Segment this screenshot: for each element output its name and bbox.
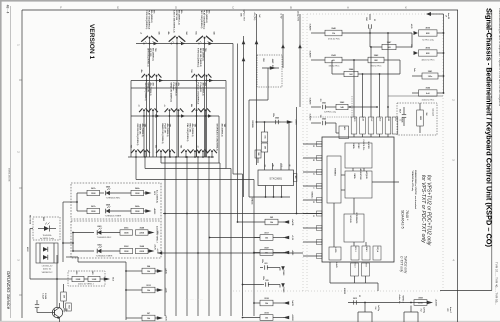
svg-text:29301-102.01: 29301-102.01 <box>8 168 10 182</box>
svg-text:100n: 100n <box>262 276 264 280</box>
key caption row 2 x201 <box>196 48 207 68</box>
svg-text:TLHR4605 REC: TLHR4605 REC <box>106 198 121 200</box>
svg-text:PLAY 187: PLAY 187 <box>164 124 167 134</box>
key switch S41 with diode <box>130 145 141 153</box>
svg-text:SICL 2: SICL 2 <box>354 246 356 251</box>
svg-text:+5: +5 <box>163 104 165 106</box>
svg-text:7u1: 7u1 <box>374 306 376 309</box>
opto box LXG351-JO <box>36 243 58 274</box>
svg-text:48h (VERS.2): 48h (VERS.2) <box>221 124 224 137</box>
wire key column S12 <box>176 38 178 157</box>
key switch S43 with diode <box>155 145 166 153</box>
svg-text:UHR 185 (VERS.1): UHR 185 (VERS.1) <box>146 48 148 67</box>
svg-text:1.88/: 1.88/ <box>387 117 389 121</box>
wire right column link <box>443 14 445 93</box>
svg-text:A: A <box>347 5 349 9</box>
resistor R96E <box>255 150 261 163</box>
key switch S23 with diode <box>190 69 201 77</box>
svg-text:SC-BUS: SC-BUS <box>349 215 351 223</box>
connector shell J2 <box>404 306 424 322</box>
svg-text:SLS 181 (VERS.2): SLS 181 (VERS.2) <box>144 83 146 101</box>
svg-text:150E: 150E <box>91 211 96 213</box>
wire key column S48 <box>211 151 213 157</box>
svg-text:+B2/26: +B2/26 <box>291 314 293 321</box>
scan edge top <box>0 0 500 2</box>
svg-text:DATA: DATA <box>352 144 355 150</box>
svg-text:VERSION 2: VERSION 2 <box>42 272 54 274</box>
svg-text:220E: 220E <box>139 251 144 253</box>
matrix row wire 4 <box>128 156 214 158</box>
vertical wire bus <box>164 156 210 316</box>
svg-text:REC 185: REC 185 <box>189 124 191 133</box>
svg-text:SDA 3: SDA 3 <box>365 247 368 252</box>
svg-text:VERSION 1: VERSION 1 <box>88 24 95 60</box>
svg-text:EJECT 184 (VERS.1,2): EJECT 184 (VERS.1,2) <box>172 10 175 33</box>
svg-text:348b: 348b <box>135 205 140 208</box>
arrow feed 4090 for PDC only <box>410 24 444 42</box>
svg-text:150E: 150E <box>124 251 129 253</box>
svg-text:882 for PDC: 882 for PDC <box>370 66 382 68</box>
resistor R3947 small <box>370 33 412 50</box>
ic block bus interface <box>344 213 364 242</box>
ic block sicl <box>351 246 359 260</box>
svg-text:4-in-2 3B/2A 4u: 4-in-2 3B/2A 4u <box>156 190 159 203</box>
svg-text:* SDA4040 for VPS only: * SDA4040 for VPS only <box>411 170 414 192</box>
resistor R3944 <box>332 60 400 77</box>
svg-text:delete for: delete for <box>43 268 52 271</box>
svg-text:SDA4642/6846 for VPS/PDC, new: SDA4642/6846 for VPS/PDC, new download <box>414 170 417 210</box>
svg-text:48u: 48u <box>155 145 158 148</box>
svg-text:63: 63 <box>358 295 360 297</box>
svg-text:CIRQ A: CIRQ A <box>376 246 379 253</box>
key switch S31 with diode <box>138 104 149 112</box>
resistor R3963 <box>78 276 113 285</box>
svg-text:265: 265 <box>265 280 268 282</box>
svg-text:48h (VERS.1): 48h (VERS.1) <box>150 10 153 23</box>
svg-text:48h (VERS.2): 48h (VERS.2) <box>191 124 194 137</box>
transistor T4F00 <box>52 303 67 322</box>
resistor R3908 220E <box>414 298 438 308</box>
key switch S12 with diode <box>167 31 188 44</box>
svg-text:(delay TU²): (delay TU²) <box>297 11 300 21</box>
svg-text:delete for PDC: delete for PDC <box>422 98 435 101</box>
svg-text:delete for PDC: delete for PDC <box>421 58 435 61</box>
key caption row 1 x177 <box>172 10 183 33</box>
led D6868 TLHR4605 TIMER <box>105 205 131 218</box>
title separator rule <box>491 10 493 291</box>
svg-text:P-Down: P-Down <box>172 83 174 92</box>
key caption row 4 x165 <box>161 124 172 144</box>
svg-text:SuR/290: SuR/290 <box>309 51 311 58</box>
svg-text:S7XC0681: S7XC0681 <box>269 177 282 181</box>
ic bottom pin boxes <box>330 262 378 291</box>
dashed box LED indicators version 1 <box>71 183 161 219</box>
svg-text:150E: 150E <box>135 211 140 213</box>
resistor R364 row <box>126 265 168 275</box>
svg-text:byPass TXT: byPass TXT <box>243 9 245 21</box>
svg-text:D: D <box>175 5 177 9</box>
svg-text:63: 63 <box>373 19 375 21</box>
svg-text:SLICER: SLICER <box>367 142 369 150</box>
svg-text:GND/4u: GND/4u <box>311 192 314 200</box>
ic block data slicer <box>345 140 372 168</box>
capacitor C265 row d <box>262 276 285 293</box>
svg-text:SC6: SC6 <box>410 44 412 48</box>
svg-text:SuR/290: SuR/290 <box>309 98 311 105</box>
wire key column S36 <box>205 110 207 157</box>
svg-text:150E: 150E <box>124 232 129 234</box>
svg-text:5k6: 5k6 <box>425 113 427 116</box>
svg-text:1uF/Vp: 1uF/Vp <box>422 307 424 314</box>
svg-text:100E: 100E <box>92 279 97 281</box>
svg-text:2: 2 <box>312 188 314 189</box>
resistor R3903 5k6 <box>417 103 427 133</box>
svg-text:+C5 (TU²): +C5 (TU²) <box>253 12 256 21</box>
svg-text:+5: +5 <box>197 145 199 147</box>
key switch S47 with diode <box>197 145 208 153</box>
arrow uF from IS <box>426 12 449 20</box>
wire net 237 continuation <box>237 44 239 223</box>
capacitor C2941 210 5uF PDC only <box>311 96 378 117</box>
svg-text:100n: 100n <box>261 259 263 263</box>
capacitor C2940 100n <box>256 113 297 163</box>
svg-text:105: 105 <box>264 135 266 138</box>
scan edge bottom <box>0 321 500 322</box>
svg-text:347b: 347b <box>91 205 96 208</box>
svg-text:3E5: 3E5 <box>294 176 296 179</box>
svg-text:GRUNDIG Service: GRUNDIG Service <box>6 271 11 310</box>
svg-text:5uF/B: 5uF/B <box>291 300 293 306</box>
ic footnote SDA2040 <box>411 170 417 210</box>
svg-text:DATA: DATA <box>353 174 356 180</box>
ic left pin wires <box>303 142 322 259</box>
svg-text:48h (VERS.2): 48h (VERS.2) <box>205 10 208 23</box>
ic U7640 top pin boxes <box>351 32 443 137</box>
wire key column S46 <box>194 151 196 157</box>
wire in TU2 <box>280 13 285 68</box>
svg-text:23: 23 <box>312 201 314 203</box>
ic internal connections <box>334 168 399 247</box>
svg-text:R50: R50 <box>262 58 264 61</box>
svg-text:NO KEUS: NO KEUS <box>29 215 31 225</box>
svg-text:48h (VERS.2): 48h (VERS.2) <box>175 83 178 96</box>
svg-text:SDA4642-5: SDA4642-5 <box>401 210 405 229</box>
key switch S21 with diode <box>140 69 151 77</box>
svg-text:STOP 184: STOP 184 <box>175 10 178 21</box>
svg-text:470k for PDC: 470k for PDC <box>328 39 341 41</box>
svg-text:B 1k08: B 1k08 <box>44 293 46 299</box>
svg-text:150E: 150E <box>135 193 140 195</box>
svg-text:DDR/NS: DDR/NS <box>251 120 253 128</box>
svg-text:220E: 220E <box>418 302 423 304</box>
svg-text:C-TXT only: C-TXT only <box>400 256 404 273</box>
key switch S42 with diode <box>140 149 150 153</box>
svg-text:5: 5 <box>399 120 401 121</box>
svg-text:17: 17 <box>312 173 314 175</box>
wire key column S22 <box>156 76 158 157</box>
svg-text:from C: from C <box>449 307 451 314</box>
svg-text:1.8u2: 1.8u2 <box>379 117 381 121</box>
led D6861 TLHG4805 REC <box>72 226 120 239</box>
svg-text:STOP/EJECT 188 (VERS.2): STOP/EJECT 188 (VERS.2) <box>215 124 217 151</box>
svg-text:48h (VERS.2): 48h (VERS.2) <box>202 83 205 96</box>
scan ghost marks <box>185 243 364 301</box>
resistor R3918 row e <box>253 298 293 306</box>
wire key column S43 <box>160 151 162 157</box>
wire key column S41 <box>135 151 137 157</box>
svg-text:SuR/290: SuR/290 <box>309 24 311 31</box>
led D6869 TLHR4605 REC <box>100 187 132 200</box>
svg-text:not used: not used <box>432 108 435 116</box>
svg-text:261: 261 <box>264 263 267 265</box>
svg-text:3u4+: 3u4+ <box>413 68 416 72</box>
svg-text:2913: 2913 <box>353 298 357 300</box>
svg-text:from I/S: from I/S <box>447 13 449 20</box>
wire delay TU2 <box>297 11 302 107</box>
ic designation 7640 SDA4642-5 <box>401 210 410 229</box>
svg-text:4962: 4962 <box>42 217 45 221</box>
wire net vertical 296 <box>296 107 298 214</box>
svg-text:B: B <box>290 5 292 9</box>
svg-text:68uF: 68uF <box>399 109 401 113</box>
svg-text:WIND 182 (VERS.2): WIND 182 (VERS.2) <box>169 83 171 103</box>
svg-text:in TU²: in TU² <box>280 13 283 19</box>
svg-text:TLHR420k: TLHR420k <box>42 235 51 237</box>
dashed box D4962 option <box>33 217 60 240</box>
wire left feed <box>30 229 58 280</box>
svg-text:48 - 4: 48 - 4 <box>6 5 10 14</box>
svg-text:+B,26: +B,26 <box>291 250 293 256</box>
resistor R3961 <box>120 228 133 236</box>
svg-text:7640 *: 7640 * <box>405 210 409 221</box>
resistor R3946 6u8 row <box>412 87 444 102</box>
resistor R347b <box>77 187 100 196</box>
frame border left <box>21 10 23 318</box>
arrow feed 4092 delete for PDC <box>410 44 444 61</box>
svg-text:33k for PDC: 33k for PDC <box>329 66 340 68</box>
key switch S44 with diode <box>165 149 175 153</box>
wire amp links <box>249 66 279 100</box>
svg-text:+B,26: +B,26 <box>410 24 412 29</box>
svg-text:CLOCK-PLL: CLOCK-PLL <box>362 140 364 152</box>
svg-text:SuR/290: SuR/290 <box>309 114 311 121</box>
svg-text:1.7u2: 1.7u2 <box>370 117 372 121</box>
key caption row 3 x201 <box>196 83 207 105</box>
matrix top connector labels <box>240 9 245 21</box>
svg-text:TLHG4805 TIMER: TLHG4805 TIMER <box>96 256 113 258</box>
rail SC to main ic <box>163 213 322 215</box>
frame border right <box>457 10 459 322</box>
wire key column S21 <box>146 76 148 157</box>
svg-text:+A,05: +A,05 <box>165 268 168 274</box>
resistor R347c <box>77 205 100 214</box>
label IPC from C <box>446 307 451 314</box>
svg-text:BAND 180 (VERS.2): BAND 180 (VERS.2) <box>161 124 164 144</box>
svg-text:E: E <box>117 5 119 9</box>
svg-text:7-2: 7-2 <box>280 164 282 166</box>
capacitor C2945 109 <box>311 115 336 133</box>
svg-text:2940: 2940 <box>275 116 279 119</box>
svg-text:6862: 6862 <box>97 245 101 247</box>
caption for VPS TU2 PDC variants <box>420 175 432 246</box>
svg-text:OFF/ON 189 (VERS.2): OFF/ON 189 (VERS.2) <box>136 124 138 146</box>
resistor R3941 103n <box>412 68 444 79</box>
svg-text:184: 184 <box>185 32 188 35</box>
svg-text:delete for: delete for <box>398 294 401 303</box>
svg-text:for PDC only: for PDC only <box>422 39 433 41</box>
svg-text:L4u05: L4u05 <box>335 262 338 267</box>
svg-text:48u: 48u <box>140 69 143 72</box>
wire +C5 TU2 <box>253 12 260 165</box>
svg-text:for VERS. 2 only: for VERS. 2 only <box>40 237 54 240</box>
svg-text:COM6: COM6 <box>282 287 284 294</box>
key caption row 3 x174 <box>169 83 180 103</box>
svg-text:.. ,- -. ..--: .. ,- -. ..-- <box>352 243 364 247</box>
svg-text:for VPS-TXT or PDC-TXT only: for VPS-TXT or PDC-TXT only <box>420 175 426 243</box>
wire key column S35 <box>196 110 198 157</box>
svg-text:+1,05: +1,05 <box>165 287 167 293</box>
key switch S11 with diode <box>140 32 160 45</box>
svg-text:5uF/PDC only: 5uF/PDC only <box>324 112 336 114</box>
svg-text:P-FW 186 (VERS.1): P-FW 186 (VERS.1) <box>145 10 147 30</box>
svg-text:347b: 347b <box>91 187 96 190</box>
svg-text:PLAY 188 (VERS.1): PLAY 188 (VERS.1) <box>203 10 206 30</box>
svg-text:220E: 220E <box>76 279 81 281</box>
svg-text:- AMP . DC: - AMP . DC <box>271 58 274 68</box>
svg-text:88: 88 <box>272 165 274 167</box>
connector shell J1 <box>358 303 379 322</box>
rail 284 <box>242 284 262 286</box>
svg-text:TLHG4805 REC: TLHG4805 REC <box>97 237 112 239</box>
frame border bottom right segment <box>440 290 492 292</box>
frame border top <box>22 9 458 11</box>
svg-text:LXG351-JO: LXG351-JO <box>42 265 53 267</box>
ic block sda <box>362 246 370 260</box>
ic block timing <box>327 156 341 203</box>
key switch S13 with diode <box>195 31 215 44</box>
key caption row 3 x148 <box>144 83 155 101</box>
wire key column S23 <box>196 76 198 157</box>
key switch S48 with diode <box>207 149 217 153</box>
key caption row 1 x204 <box>200 10 211 30</box>
key switch S35 with diode <box>190 104 201 112</box>
resistor R3917 row a <box>254 233 293 241</box>
svg-text:TVR 37... , TVR 40... , TVR: TVR 37... , TVR 40... , TVR 55... <box>495 262 499 305</box>
resistor R367 row <box>126 313 167 322</box>
matrix row wire 1 <box>136 42 233 174</box>
capacitor C3u3 base network <box>35 293 55 313</box>
inductor L51 box <box>336 126 349 139</box>
svg-text:SYNC: SYNC <box>357 143 359 149</box>
svg-text:360: 360 <box>63 295 65 298</box>
resistor R2942 <box>311 54 368 68</box>
svg-text:TLHR4605 TIMER: TLHR4605 TIMER <box>105 216 122 218</box>
svg-text:1uF/Vp: 1uF/Vp <box>377 305 379 312</box>
svg-text:W17: W17 <box>68 305 70 309</box>
svg-text:346b: 346b <box>135 187 140 190</box>
svg-text:48h (VERS.1,2): 48h (VERS.1,2) <box>178 10 181 25</box>
svg-text:6861: 6861 <box>97 226 101 228</box>
resistor R3940 <box>311 27 412 41</box>
svg-text:SOD20: SOD20 <box>343 288 345 294</box>
svg-text:REW 186 (VERS.2): REW 186 (VERS.2) <box>199 48 201 67</box>
svg-text:delete for VERS. 2: delete for VERS. 2 <box>78 282 94 285</box>
svg-text:GND24: GND24 <box>251 198 254 206</box>
dashed option box AMP DC <box>257 55 282 87</box>
resistor R3012 row <box>126 285 167 293</box>
ic block led5 <box>329 247 341 260</box>
resistor R346b <box>131 187 155 196</box>
dashed box LED indicators version 2 <box>71 221 161 258</box>
svg-text:+5: +5 <box>138 104 140 106</box>
svg-text:COM6: COM6 <box>282 270 284 277</box>
wire bottom rail <box>343 288 430 304</box>
dashed box delete for VERS 2 <box>68 271 105 286</box>
wire key column S11 <box>149 38 151 157</box>
wire key column S31 <box>143 110 145 157</box>
wire staircase matrix to bus <box>136 157 254 316</box>
wire led box2 feed <box>62 233 74 252</box>
key caption row 4 x190 <box>186 124 197 142</box>
svg-text:-- . ---- . -- ---: -- . ---- . -- --- <box>185 297 203 301</box>
svg-text:6868: 6868 <box>106 205 110 207</box>
ic block data adjust <box>345 169 372 198</box>
ic U2 bottom pins and ground rail <box>249 100 290 205</box>
svg-text:1.RC1: 1.RC1 <box>353 117 355 122</box>
svg-text:186: 186 <box>158 32 160 35</box>
svg-text:48h: 48h <box>190 104 193 107</box>
svg-text:3955: 3955 <box>75 271 77 275</box>
svg-text:TIMING: TIMING <box>334 168 336 176</box>
svg-text:+5uF/B: +5uF/B <box>291 219 293 226</box>
svg-text:+5,26: +5,26 <box>291 235 293 241</box>
wire key column S44 <box>169 151 171 157</box>
svg-text:+4u5/26: +4u5/26 <box>435 299 438 307</box>
resistor R3948 <box>136 227 159 236</box>
rail 253 with arrow <box>154 244 304 255</box>
svg-text:PLAY 186 (VERS.2): PLAY 186 (VERS.2) <box>148 10 151 30</box>
svg-text:REC 188 (VERS.2): REC 188 (VERS.2) <box>200 10 202 29</box>
svg-text:C 3u3F: C 3u3F <box>42 293 44 300</box>
svg-text:3903: 3903 <box>419 116 421 120</box>
matrix left rail <box>131 81 225 158</box>
key switch S34 with diode <box>174 108 184 112</box>
key switch S22 with diode <box>152 74 162 78</box>
svg-text:7u2: 7u2 <box>420 308 422 311</box>
resistor R390 and R105 stack <box>251 120 268 163</box>
wire key column S47 <box>202 151 204 157</box>
svg-text:C: C <box>232 5 234 9</box>
svg-text:48h (VERS.2): 48h (VERS.2) <box>149 83 152 96</box>
key caption row 1 x149 <box>145 10 156 30</box>
wire byPass TXT <box>242 36 246 197</box>
svg-text:SCL 3: SCL 3 <box>354 263 356 268</box>
svg-text:P-FW 181 (VERS.1): P-FW 181 (VERS.1) <box>196 48 198 68</box>
svg-text:TA5: TA5 <box>195 31 198 34</box>
svg-text:1A51: 1A51 <box>343 126 346 130</box>
svg-text:2941: 2941 <box>322 101 326 104</box>
svg-text:SA/26: SA/26 <box>401 118 404 123</box>
svg-text:TIMER 185: TIMER 185 <box>139 124 141 136</box>
svg-text:2945: 2945 <box>322 117 326 120</box>
svg-text:VERS 3: VERS 3 <box>402 295 404 303</box>
svg-text:48h (VERS.2): 48h (VERS.2) <box>166 124 169 137</box>
dotted boundary main module <box>233 14 443 291</box>
resistor R348b <box>131 205 155 215</box>
caption PDC TXT lower <box>400 256 408 274</box>
svg-text:21: 21 <box>312 215 314 217</box>
capacitor C2913 <box>353 295 360 305</box>
